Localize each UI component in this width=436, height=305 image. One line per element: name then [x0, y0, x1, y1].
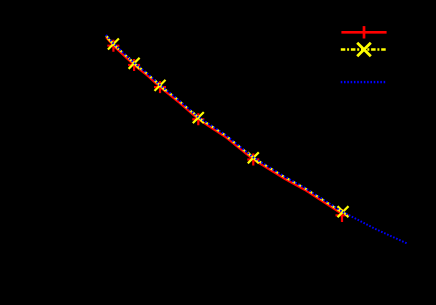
series 2 yellow cross markers	[108, 39, 349, 218]
legend entry 2: yellow dashed line with cross	[341, 43, 387, 57]
series 1 red plus markers	[107, 40, 348, 222]
series 3 blue dotted line	[106, 35, 408, 244]
series 2 yellow dashed line	[106, 35, 342, 212]
legend entry 1: red line with plus	[341, 26, 386, 38]
legend entry 3: blue dotted line	[341, 81, 387, 83]
series 1 red solid line	[106, 37, 342, 214]
